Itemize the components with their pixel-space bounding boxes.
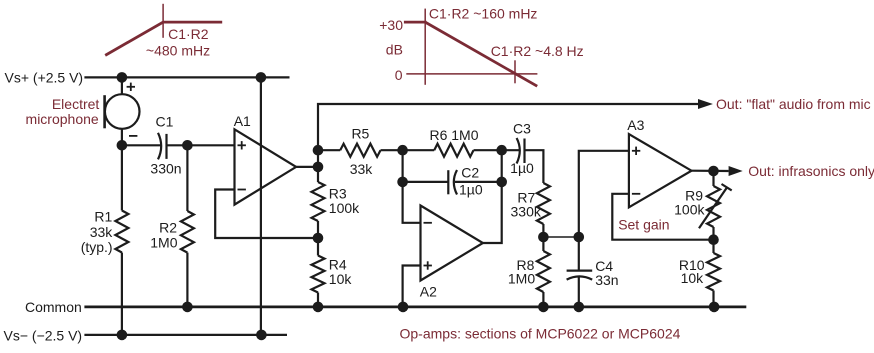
wire op-amp supply line <box>260 77 262 335</box>
node C2 right <box>496 177 507 188</box>
node A2+/Common <box>398 302 409 313</box>
resistor R8 <box>542 237 544 251</box>
wire A2 noninverting input to Common <box>403 266 421 307</box>
graph2 4.8Hz tick <box>514 60 516 83</box>
svg-text:A1: A1 <box>234 113 251 129</box>
node R7/R8 <box>538 232 549 243</box>
node R5/R6/C2 <box>397 145 408 156</box>
svg-text:Out: infrasonics only: Out: infrasonics only <box>748 163 874 179</box>
svg-text:1M0: 1M0 <box>508 271 535 287</box>
node C1 / R2 / A1 input <box>182 140 193 151</box>
capacitor C3 <box>502 149 519 151</box>
node R3/R4 feedback <box>313 233 324 244</box>
node A1 out <box>313 162 324 173</box>
node R4/Common <box>313 302 324 313</box>
resistor R10 <box>712 240 714 253</box>
svg-text:Common: Common <box>25 299 82 315</box>
node R2/Common <box>182 302 193 313</box>
graph2 +30 level line <box>404 21 427 24</box>
svg-text:Vs+ (+2.5 V): Vs+ (+2.5 V) <box>5 70 84 86</box>
graph2 vertical axis <box>424 9 426 85</box>
svg-text:Set gain: Set gain <box>618 217 669 233</box>
node R5 branch <box>313 145 324 156</box>
svg-text:R3: R3 <box>329 185 347 201</box>
wire mic node to C1 <box>122 144 161 146</box>
svg-text:0: 0 <box>395 67 403 83</box>
svg-text:C1·R2 ~4.8 Hz: C1·R2 ~4.8 Hz <box>491 43 584 59</box>
op-amp A1 <box>235 129 297 204</box>
capacitor C4 <box>578 237 580 271</box>
graph2 zero line <box>406 73 537 75</box>
wire output column up to flat out <box>318 104 698 167</box>
svg-text:33n: 33n <box>595 272 618 288</box>
svg-text:+30: +30 <box>379 17 403 33</box>
wire A3 output <box>692 170 729 173</box>
svg-text:R4: R4 <box>329 256 347 272</box>
resistor R2 <box>181 211 194 253</box>
wire Common rail <box>84 305 746 308</box>
wire R5/R6 node to A2 inverting input <box>403 150 421 223</box>
svg-text:Electret: Electret <box>52 96 100 112</box>
svg-text:10k: 10k <box>681 270 705 286</box>
resistor R1 <box>115 211 128 253</box>
wire A1 output <box>296 166 318 168</box>
svg-text:R2: R2 <box>159 220 177 236</box>
svg-text:dB: dB <box>386 42 403 58</box>
svg-text:(typ.): (typ.) <box>81 239 113 255</box>
resistor R3 <box>317 167 319 182</box>
node Vs+ / supply <box>256 72 267 83</box>
svg-text:~480 mHz: ~480 mHz <box>146 42 210 58</box>
svg-text:A3: A3 <box>627 117 644 133</box>
graph1 response curve <box>105 22 222 55</box>
svg-text:33k: 33k <box>90 224 114 240</box>
svg-text:R1: R1 <box>94 209 112 225</box>
svg-text:Out: "flat" audio from mic: Out: "flat" audio from mic <box>716 96 871 112</box>
svg-text:1M0: 1M0 <box>150 235 177 251</box>
wire A2 output <box>483 150 502 243</box>
wire C1 to node <box>167 144 235 146</box>
capacitor C1 <box>158 133 161 160</box>
wire Vs+ rail <box>84 76 289 78</box>
wire A3 feedback (set gain) <box>612 194 713 240</box>
svg-text:C1·R2 ~160 mHz: C1·R2 ~160 mHz <box>429 6 538 22</box>
resistor R6 <box>403 149 435 151</box>
resistor R7 <box>537 183 550 224</box>
svg-text:1µ0: 1µ0 <box>510 160 534 176</box>
node A3 out <box>708 166 719 177</box>
electret microphone MK1 <box>105 94 140 129</box>
node supply/Vs- <box>256 330 267 341</box>
node R8/Common <box>538 302 549 313</box>
node R6/C3/A2 out <box>496 145 507 156</box>
svg-text:A2: A2 <box>420 284 437 300</box>
svg-text:33k: 33k <box>350 161 374 177</box>
svg-text:1µ0: 1µ0 <box>459 182 483 198</box>
wire Vs- rail <box>84 334 287 336</box>
wire R7/R8 node to C4 node <box>543 236 578 238</box>
node flat-out arrow <box>698 99 713 109</box>
svg-text:C3: C3 <box>513 121 531 137</box>
node R9/R10 <box>708 234 719 245</box>
node C4 top <box>574 232 585 243</box>
capacitor C2 <box>403 181 449 183</box>
wire R7/R8 node up to A3 noninverting input <box>579 151 629 237</box>
wire R2 to Common <box>186 253 188 307</box>
node mic / C1 / R1 <box>117 140 128 151</box>
svg-text:C1: C1 <box>156 114 174 130</box>
potentiometer R9 <box>712 171 714 186</box>
resistor R5 <box>318 149 340 151</box>
node R10/Common <box>709 302 720 313</box>
op-amp A3 <box>629 134 692 207</box>
svg-text:Vs− (−2.5 V): Vs− (−2.5 V) <box>4 327 83 343</box>
node infrasonics arrow <box>729 166 743 176</box>
svg-text:10k: 10k <box>329 271 353 287</box>
op-amp A2 <box>421 206 483 281</box>
svg-text:330n: 330n <box>150 161 181 177</box>
wire R1 to Vs- <box>121 253 123 335</box>
wire node to R2 <box>186 145 188 211</box>
node R1/Vs- <box>117 330 128 341</box>
graph1 tick <box>162 4 164 38</box>
svg-text:100k: 100k <box>674 202 705 218</box>
wire A1 feedback <box>215 190 318 239</box>
svg-text:100k: 100k <box>329 200 360 216</box>
svg-text:R6 1M0: R6 1M0 <box>429 127 478 143</box>
resistor R4 <box>317 238 319 256</box>
svg-text:microphone: microphone <box>26 111 99 127</box>
graph2 rolloff slope <box>425 22 537 86</box>
svg-text:330k: 330k <box>511 204 542 220</box>
node Vs+ / mic <box>117 72 128 83</box>
wire C3 to R7 <box>525 150 544 183</box>
node C2 left <box>397 177 408 188</box>
wire mic top <box>121 77 123 94</box>
svg-text:C1·R2: C1·R2 <box>168 26 209 42</box>
svg-text:Op-amps: sections of MCP6022 o: Op-amps: sections of MCP6022 or MCP6024 <box>400 325 681 341</box>
svg-text:R5: R5 <box>351 126 369 142</box>
node C4/Common <box>574 302 585 313</box>
wire mic bottom / R1 column <box>121 129 123 211</box>
svg-text:C2: C2 <box>461 165 479 181</box>
